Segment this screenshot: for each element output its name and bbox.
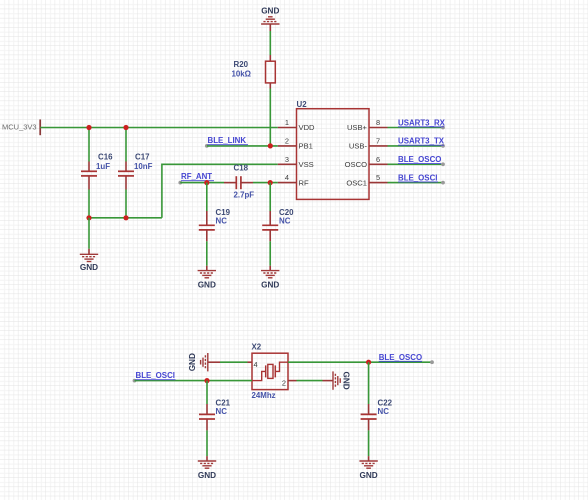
net BLE_OSCI right <box>388 173 445 184</box>
capacitor C17 <box>118 128 153 218</box>
ground X2 left <box>188 353 220 371</box>
svg-text:2: 2 <box>282 379 286 388</box>
svg-text:1uF: 1uF <box>96 162 110 171</box>
svg-text:10kΩ: 10kΩ <box>232 69 252 78</box>
svg-text:R20: R20 <box>234 60 249 69</box>
net BLE_OSCO right <box>388 155 445 166</box>
svg-text:5: 5 <box>376 173 380 182</box>
U2 pin 4 RF <box>278 173 309 187</box>
X2 pin 4 stub <box>248 361 253 363</box>
svg-text:GND: GND <box>80 263 98 272</box>
U2 pin 5 OSC1 <box>346 173 387 187</box>
svg-text:OSC1: OSC1 <box>346 178 367 187</box>
ground C19 <box>198 266 216 290</box>
svg-text:NC: NC <box>216 217 228 226</box>
svg-text:USART3_TX: USART3_TX <box>398 137 445 146</box>
supply MCU_3V3 <box>2 120 40 136</box>
junction row1 col A <box>86 125 91 130</box>
svg-text:BLE_OSCI: BLE_OSCI <box>398 173 437 182</box>
svg-text:2: 2 <box>285 136 289 145</box>
svg-text:C17: C17 <box>135 153 150 162</box>
svg-text:GND: GND <box>198 281 216 290</box>
svg-text:24Mhz: 24Mhz <box>252 391 276 400</box>
svg-text:USB-: USB- <box>349 142 368 151</box>
capacitor C16 <box>81 128 113 218</box>
svg-text:PB1: PB1 <box>299 142 313 151</box>
svg-text:4: 4 <box>254 360 258 369</box>
U2 pin 6 OSCO <box>345 155 388 169</box>
crystal X2 <box>252 342 289 400</box>
net BLE_OSCI bottom <box>133 371 252 382</box>
ground X2 right <box>323 371 351 389</box>
wire VSS route <box>162 164 278 218</box>
net BLE_OSCO bottom <box>288 353 434 364</box>
junction BLE_OSCI / C21 <box>204 378 209 383</box>
ground C22 <box>359 456 377 480</box>
svg-text:GND: GND <box>359 471 377 480</box>
svg-text:BLE_OSCI: BLE_OSCI <box>136 371 175 380</box>
svg-text:10nF: 10nF <box>134 162 153 171</box>
svg-text:1: 1 <box>285 118 289 127</box>
junction RF row col C19 <box>204 180 209 185</box>
svg-text:VSS: VSS <box>299 160 314 169</box>
junction BLE_LINK / R20 <box>268 143 273 148</box>
svg-text:MCU_3V3: MCU_3V3 <box>2 123 37 132</box>
svg-text:USART3_RX: USART3_RX <box>398 118 446 127</box>
wire pin2 to gnd <box>297 380 323 382</box>
IC U2 <box>297 100 370 199</box>
wire R20 to BLE_LINK <box>269 89 271 146</box>
capacitor C18 <box>224 163 278 199</box>
net BLE_LINK <box>205 136 278 148</box>
resistor R20 <box>232 55 276 89</box>
capacitor C21 <box>199 381 231 457</box>
svg-text:C18: C18 <box>234 163 249 172</box>
svg-text:BLE_OSCO: BLE_OSCO <box>398 155 441 164</box>
ground C20 <box>261 266 279 290</box>
svg-text:GND: GND <box>261 6 279 15</box>
svg-text:BLE_OSCO: BLE_OSCO <box>379 353 422 362</box>
svg-text:7: 7 <box>376 136 380 145</box>
U2 pin 8 USB+ <box>347 118 388 132</box>
capacitor C22 <box>361 362 393 456</box>
svg-text:BLE_LINK: BLE_LINK <box>208 136 247 145</box>
svg-text:C16: C16 <box>98 153 113 162</box>
svg-text:GND: GND <box>342 371 351 389</box>
svg-text:OSCO: OSCO <box>345 160 367 169</box>
svg-text:USB+: USB+ <box>347 123 368 132</box>
capacitor C19 <box>199 183 231 266</box>
wire VDD row1 <box>40 127 278 129</box>
ground top (above R20) <box>261 6 279 31</box>
svg-text:8: 8 <box>376 118 380 127</box>
U2 pin 7 USB- <box>349 136 388 150</box>
svg-text:6: 6 <box>376 155 380 164</box>
svg-text:VDD: VDD <box>299 123 316 132</box>
junction rail col A <box>86 215 91 220</box>
svg-text:NC: NC <box>378 407 390 416</box>
capacitor C20 <box>262 183 294 266</box>
junction rail col B <box>123 215 128 220</box>
net USART3_TX <box>388 137 445 148</box>
wire gnd to R20 <box>269 31 271 55</box>
wire bottom rail <box>89 217 162 219</box>
svg-text:3: 3 <box>285 155 289 164</box>
svg-text:RF: RF <box>299 178 309 187</box>
junction row1 col B <box>123 125 128 130</box>
svg-text:GND: GND <box>261 281 279 290</box>
svg-text:GND: GND <box>188 353 197 371</box>
svg-text:NC: NC <box>279 217 291 226</box>
svg-text:U2: U2 <box>297 100 308 109</box>
X2 pin 2 stub <box>288 380 297 382</box>
U2 pin 1 VDD <box>278 118 315 132</box>
ground colA <box>80 218 98 272</box>
ground C21 <box>198 456 216 480</box>
U2 pin 3 VSS <box>278 155 314 169</box>
net RF_ANT <box>178 172 224 184</box>
svg-text:4: 4 <box>285 173 289 182</box>
svg-text:2.7pF: 2.7pF <box>234 191 255 200</box>
junction RF row col C20 <box>268 180 273 185</box>
U2 pin 2 PB1 <box>278 136 313 150</box>
svg-text:NC: NC <box>216 407 228 416</box>
svg-text:GND: GND <box>198 471 216 480</box>
junction BLE_OSCO / C22 <box>366 360 371 365</box>
wire pin4 to gnd <box>220 361 248 363</box>
svg-text:X2: X2 <box>252 342 262 351</box>
net USART3_RX <box>388 118 446 129</box>
svg-text:RF_ANT: RF_ANT <box>181 172 212 181</box>
